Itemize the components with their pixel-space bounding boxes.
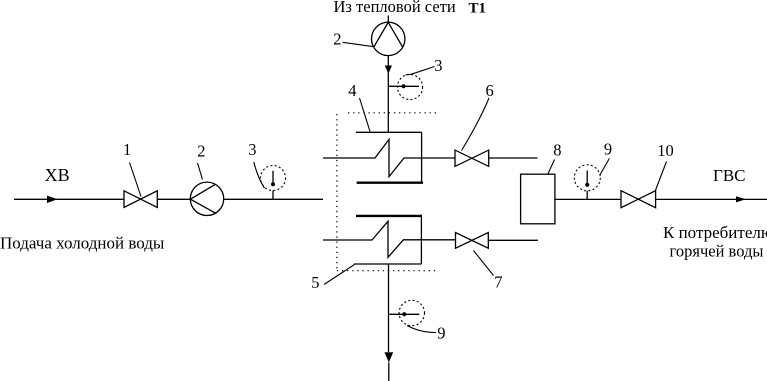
svg-text:ХВ: ХВ bbox=[45, 165, 70, 185]
svg-text:1: 1 bbox=[123, 140, 131, 159]
svg-text:К потребителю: К потребителю bbox=[663, 223, 767, 242]
thermometer 3 (left) dashed circle bbox=[261, 166, 286, 191]
svg-text:4: 4 bbox=[348, 81, 356, 100]
svg-text:7: 7 bbox=[494, 273, 502, 292]
heat exchanger 4: zigzag coil with inlet/outlet wires bbox=[323, 139, 455, 176]
valve 6 bbox=[455, 150, 489, 166]
svg-text:10: 10 bbox=[657, 141, 674, 160]
leader label 3 (left, curved) bbox=[254, 162, 265, 188]
flow arrow on drain pipe bbox=[385, 352, 394, 362]
svg-text:Из тепловой сети: Из тепловой сети bbox=[334, 0, 456, 16]
svg-text:горячей воды: горячей воды bbox=[670, 242, 764, 261]
svg-text:8: 8 bbox=[553, 140, 561, 159]
wire: drain pipe below heat exchanger 5 bbox=[388, 264, 390, 352]
heat exchanger 4: right edge bbox=[421, 132, 423, 183]
thermometer 3 (top) dashed circle bbox=[397, 74, 422, 99]
leader label 7 bbox=[474, 251, 494, 276]
wire: valve 1 to pump 2 bbox=[157, 198, 190, 200]
wire: top pipe from heating network bbox=[387, 16, 389, 23]
leader label 5 bbox=[324, 265, 355, 285]
thermometer 9 (right) dot bbox=[585, 183, 589, 187]
dashed enclosure bottom bbox=[337, 270, 439, 272]
thermometer 9 (right) stem bbox=[586, 171, 588, 185]
dashed enclosure top bbox=[348, 112, 437, 114]
svg-text:Т1: Т1 bbox=[469, 1, 487, 17]
thermometer 3 (left) stem bbox=[272, 171, 274, 184]
leader label 9 (bottom) bbox=[407, 326, 436, 333]
heat exchanger 5: right edge bbox=[420, 216, 422, 264]
svg-text:6: 6 bbox=[486, 81, 494, 100]
heat exchanger 4: thick bottom edge bbox=[357, 181, 423, 183]
svg-text:5: 5 bbox=[311, 273, 319, 292]
wire: pump to heat exchanger (vertical) bbox=[387, 56, 389, 133]
thermometer 3 (left) dot bbox=[271, 182, 275, 186]
svg-text:3: 3 bbox=[434, 56, 442, 75]
leader label 3 (top) bbox=[406, 67, 435, 76]
svg-text:2: 2 bbox=[333, 29, 341, 48]
pump 2 (top) internal triangle chords bbox=[374, 22, 403, 47]
leader label 4 bbox=[360, 98, 371, 132]
wire: cold water inlet line bbox=[14, 198, 124, 200]
wire: tank 8 to valve 10 bbox=[555, 198, 621, 200]
svg-text:9: 9 bbox=[437, 323, 445, 342]
leader label 6 bbox=[462, 98, 490, 151]
pump 2 internal triangle chords bbox=[190, 184, 215, 213]
leader label 2 (top pump) bbox=[343, 42, 373, 46]
heat exchanger 5: bottom edge bbox=[354, 263, 421, 265]
svg-text:9: 9 bbox=[604, 139, 612, 158]
thermometer 9 (right) tick to pipe bbox=[586, 191, 588, 200]
thermometer 3 (left) tick to pipe bbox=[272, 191, 274, 200]
thermometer 9 (right) dashed circle bbox=[574, 165, 600, 191]
wire: pump 2 to heat exchanger inlet bbox=[224, 198, 323, 200]
heat exchanger 4: top edge bbox=[356, 131, 422, 133]
leader label 1 bbox=[130, 163, 142, 197]
flow arrow on cold water inlet bbox=[47, 196, 58, 203]
svg-text:2: 2 bbox=[197, 141, 205, 160]
thermometer 9 (bottom) dot bbox=[402, 312, 406, 316]
svg-text:3: 3 bbox=[248, 140, 256, 159]
flow arrow on top pipe bbox=[385, 66, 392, 74]
heat exchanger 5: thick top edge bbox=[356, 215, 422, 217]
wire: drain pipe tail bbox=[388, 363, 390, 381]
accumulator tank 8 bbox=[521, 174, 555, 224]
heat exchanger 5: zigzag coil with inlet/outlet wires bbox=[323, 221, 456, 257]
thermometer 9 (bottom) dashed circle bbox=[399, 300, 424, 325]
wire: valve 10 to consumer bbox=[656, 198, 767, 200]
pump 2 (top, circle) bbox=[372, 22, 405, 55]
leader label 2 (left pump) bbox=[198, 163, 203, 180]
leader label 8 bbox=[548, 160, 555, 174]
valve 1 bbox=[124, 191, 157, 208]
thermometer 9 (bottom) stem bbox=[389, 313, 419, 315]
flow arrow on outlet bbox=[736, 196, 746, 202]
thermometer 3 (top) stem bbox=[388, 85, 419, 87]
thermometer 3 (top) dot bbox=[402, 84, 406, 88]
wire: valve 7 tail bbox=[488, 239, 538, 241]
svg-text:Подача холодной воды: Подача холодной воды bbox=[0, 233, 165, 252]
valve 7 bbox=[456, 233, 489, 249]
wire: valve 6 tail bbox=[489, 157, 538, 159]
valve 10 bbox=[621, 191, 656, 208]
dashed enclosure left bbox=[336, 114, 338, 271]
svg-text:ГВС: ГВС bbox=[713, 166, 746, 185]
leader label 9 (right) bbox=[600, 159, 610, 176]
pump 2 (circle) bbox=[190, 182, 223, 215]
leader label 10 bbox=[655, 162, 666, 191]
